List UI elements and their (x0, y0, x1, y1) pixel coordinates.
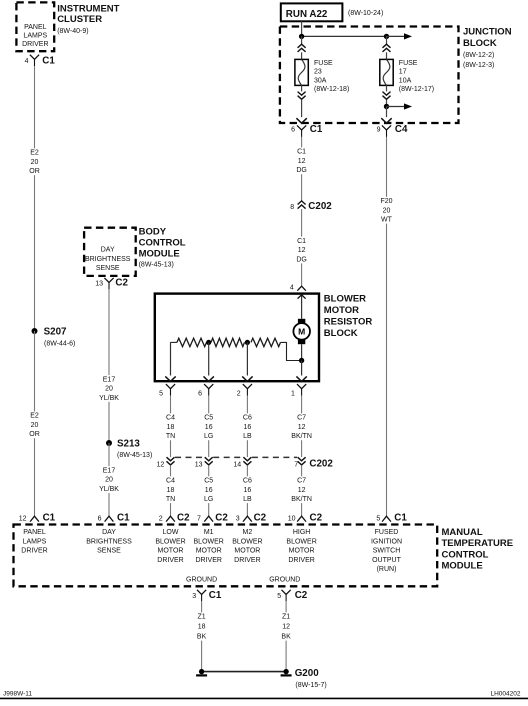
fuse 17 10A (380, 59, 393, 85)
svg-text:17: 17 (399, 69, 407, 76)
node resistor tap 1 (206, 340, 211, 345)
connector C2 module pin 3 (243, 512, 267, 523)
svg-text:C5: C5 (204, 478, 213, 485)
wire C5 16 LG lower (203, 465, 214, 516)
svg-text:C1: C1 (42, 56, 55, 67)
svg-text:TN: TN (166, 496, 175, 503)
pin 6 function label (86, 529, 132, 555)
svg-text:BLOWER: BLOWER (324, 293, 366, 304)
svg-text:16: 16 (205, 424, 213, 431)
pin 12 function label (21, 529, 47, 555)
connector pin 2 (243, 384, 252, 396)
connector C202 inline lower (298, 457, 334, 469)
svg-text:CONTROL: CONTROL (139, 238, 186, 249)
svg-text:RESISTOR: RESISTOR (324, 317, 373, 328)
svg-text:GROUND: GROUND (269, 577, 300, 584)
pin 12 C202 (157, 462, 165, 469)
wire label C1 12 DG (296, 147, 307, 174)
svg-text:MOTOR: MOTOR (196, 548, 222, 555)
pin 4 resistor block (290, 285, 294, 292)
svg-text:MOTOR: MOTOR (324, 305, 359, 316)
svg-text:C7: C7 (297, 478, 306, 485)
svg-text:12: 12 (157, 462, 165, 469)
node S207 (32, 327, 76, 348)
svg-text:C6: C6 (243, 478, 252, 485)
svg-text:5: 5 (376, 515, 380, 522)
svg-text:CONTROL: CONTROL (442, 549, 489, 560)
svg-text:RUN A22: RUN A22 (286, 9, 328, 20)
svg-text:C2: C2 (115, 278, 128, 289)
wire below fuse 23 (296, 85, 306, 123)
svg-text:BLOWER: BLOWER (286, 538, 316, 545)
wire label E2 20 OR (29, 148, 40, 175)
node RUN A22 (281, 3, 383, 21)
svg-text:CLUSTER: CLUSTER (57, 14, 102, 25)
svg-text:LB: LB (243, 433, 252, 440)
blower motor resistor block box (155, 294, 319, 382)
wire motor to node (301, 344, 303, 360)
svg-text:OR: OR (29, 168, 40, 175)
wire label E2 20 OR lower (29, 411, 40, 438)
svg-text:C2: C2 (310, 512, 323, 523)
node resistor tap 2 (245, 340, 250, 345)
svg-text:(8W-12-3): (8W-12-3) (463, 62, 494, 69)
connector C4 junction block (382, 124, 408, 137)
ground G200 (295, 668, 327, 689)
svg-text:DRIVER: DRIVER (22, 41, 48, 48)
wire to fuse 23 (298, 36, 306, 59)
svg-text:OR: OR (29, 431, 40, 438)
resistor R3 (251, 338, 281, 346)
svg-text:23: 23 (314, 69, 322, 76)
wire E2 20 OR lower (34, 331, 36, 516)
svg-text:20: 20 (31, 159, 39, 166)
panel lamps driver pin label (22, 24, 48, 48)
svg-text:BK/TN: BK/TN (291, 433, 312, 440)
svg-text:5: 5 (159, 391, 163, 398)
svg-text:LG: LG (204, 433, 213, 440)
svg-text:13: 13 (95, 280, 103, 287)
connector C1 module pin 12 (30, 512, 56, 523)
resistor R1 (177, 338, 207, 346)
svg-text:MANUAL: MANUAL (442, 527, 483, 538)
svg-text:C1: C1 (209, 590, 222, 601)
svg-text:12: 12 (298, 158, 306, 165)
connector C2 ground (282, 590, 308, 602)
svg-text:BLOWER: BLOWER (155, 538, 185, 545)
svg-text:FUSE: FUSE (399, 60, 418, 67)
svg-text:C2: C2 (295, 590, 308, 601)
svg-text:3: 3 (236, 515, 240, 522)
node fuse 17 branch (384, 104, 389, 109)
svg-text:Z1: Z1 (198, 614, 206, 621)
wire label E17 20 YL/BK (97, 375, 121, 402)
pin 2 resistor (237, 391, 241, 398)
ground bus wire (202, 671, 287, 673)
svg-text:BLOCK: BLOCK (324, 328, 358, 339)
wire tap M2 to pin 2 (242, 342, 252, 381)
pin 13 C202 (195, 462, 203, 469)
svg-text:MODULE: MODULE (139, 249, 180, 260)
wire E17 20 YL/BK upper (108, 289, 110, 443)
svg-text:(8W-10-24): (8W-10-24) (348, 10, 383, 17)
svg-text:BLOWER: BLOWER (194, 538, 224, 545)
wire below fuse 17 (383, 85, 391, 106)
svg-text:JUNCTION: JUNCTION (463, 27, 512, 38)
pin 6 (291, 127, 295, 134)
svg-text:C4: C4 (166, 415, 175, 422)
connector C1 module pin 6 (105, 512, 130, 523)
svg-text:20: 20 (105, 477, 113, 484)
svg-text:C1: C1 (394, 512, 407, 523)
connector C202 pin 13 chevron (205, 457, 213, 465)
svg-text:E17: E17 (103, 467, 116, 474)
svg-text:WT: WT (381, 217, 393, 224)
svg-text:GROUND: GROUND (186, 577, 217, 584)
svg-text:5: 5 (277, 593, 281, 600)
connector C202 inline upper (298, 201, 333, 212)
svg-text:MODULE: MODULE (442, 561, 483, 572)
pin 2 function label (155, 529, 185, 564)
svg-text:2: 2 (237, 391, 241, 398)
footer rule (0, 697, 528, 699)
svg-text:C2: C2 (177, 512, 190, 523)
svg-text:BK/TN: BK/TN (291, 496, 312, 503)
manual temperature control module box (14, 525, 438, 587)
svg-text:16: 16 (244, 424, 252, 431)
svg-text:14: 14 (233, 462, 241, 469)
svg-text:BLOWER: BLOWER (232, 538, 262, 545)
node S213 (106, 439, 152, 459)
svg-text:4: 4 (25, 58, 29, 65)
svg-text:C1: C1 (117, 512, 130, 523)
svg-text:(8W-45-13): (8W-45-13) (139, 261, 174, 268)
junction block box (280, 27, 459, 124)
svg-text:C4: C4 (166, 478, 175, 485)
svg-text:3: 3 (192, 593, 196, 600)
svg-text:6: 6 (291, 127, 295, 134)
svg-text:MOTOR: MOTOR (234, 548, 260, 555)
fuse 23 value label (314, 60, 349, 93)
connector C2 module pin 7 (204, 512, 228, 523)
svg-text:BODY: BODY (139, 227, 167, 238)
connector C1 ground (197, 590, 222, 602)
wire tap low to pin 5 (165, 342, 175, 381)
junction block label (463, 27, 512, 70)
svg-text:FUSE: FUSE (314, 60, 333, 67)
instrument cluster label (57, 3, 119, 35)
svg-text:BRIGHTNESS: BRIGHTNESS (85, 256, 131, 263)
pin 6 module (98, 515, 102, 522)
wire C7 12 BK/TN upper (290, 396, 314, 457)
svg-text:SWITCH: SWITCH (373, 548, 401, 555)
svg-text:6: 6 (198, 391, 202, 398)
svg-text:BLOCK: BLOCK (463, 38, 497, 49)
connector pin 5 (166, 384, 175, 396)
svg-text:LH004202: LH004202 (491, 690, 521, 697)
wire C4 18 TN lower (165, 465, 176, 516)
wire label E17 20 YL/BK lower (97, 466, 121, 493)
svg-text:(8W-45-13): (8W-45-13) (117, 452, 152, 459)
wire E2 20 OR upper (34, 66, 36, 331)
pin 2 module (159, 515, 163, 522)
wire C5 16 LG upper (203, 396, 214, 457)
blower motor resistor block label (324, 293, 373, 339)
svg-text:30A: 30A (314, 77, 327, 84)
svg-text:16: 16 (205, 487, 213, 494)
svg-text:12: 12 (298, 424, 306, 431)
svg-text:(8W-12-2): (8W-12-2) (463, 52, 494, 59)
connector C1 junction block (297, 124, 323, 137)
wire C4 18 TN upper (165, 396, 176, 457)
pin 1 resistor (291, 391, 295, 398)
svg-text:8: 8 (290, 204, 294, 211)
connector C1 instrument cluster (30, 55, 55, 67)
wire bus (302, 35, 387, 37)
pin 12 module (19, 515, 27, 522)
svg-text:DRIVER: DRIVER (234, 557, 260, 564)
pin 8 (290, 204, 294, 211)
svg-text:MOTOR: MOTOR (289, 548, 315, 555)
svg-text:S213: S213 (117, 439, 140, 450)
svg-text:C1: C1 (43, 512, 56, 523)
svg-text:F20: F20 (380, 198, 392, 205)
wire C1 12 DG upper (301, 137, 303, 201)
svg-text:20: 20 (31, 422, 39, 429)
svg-text:J998W-11: J998W-11 (3, 690, 32, 697)
svg-text:BRIGHTNESS: BRIGHTNESS (86, 538, 132, 545)
instrument cluster box (16, 2, 54, 51)
ground label right (269, 577, 300, 584)
svg-text:13: 13 (195, 462, 203, 469)
svg-text:C2: C2 (254, 512, 267, 523)
svg-text:18: 18 (198, 624, 206, 631)
svg-text:PANEL: PANEL (23, 529, 46, 536)
svg-text:(8W-44-6): (8W-44-6) (44, 341, 75, 348)
wire C1 12 DG lower (301, 209, 303, 286)
svg-text:Z1: Z1 (282, 614, 290, 621)
svg-text:YL/BK: YL/BK (99, 486, 119, 493)
svg-text:DAY: DAY (102, 529, 116, 536)
resistor R2 (211, 338, 245, 346)
manual temperature control module label (442, 527, 514, 572)
svg-text:LG: LG (204, 496, 213, 503)
connector C202 pin 12 chevron (167, 457, 175, 465)
svg-text:4: 4 (290, 285, 294, 292)
svg-text:(8W-40-9): (8W-40-9) (57, 28, 88, 35)
node bus junction left (299, 34, 304, 39)
svg-text:C202: C202 (308, 201, 332, 212)
svg-text:LAMPS: LAMPS (23, 538, 47, 545)
svg-text:DRIVER: DRIVER (288, 557, 314, 564)
pin 13 (95, 280, 103, 287)
wire Z1 12 BK (281, 601, 292, 671)
pin 6 resistor (198, 391, 202, 398)
svg-text:C202: C202 (309, 458, 333, 469)
connector pin 6 (204, 384, 213, 396)
motor M blower (293, 319, 310, 344)
svg-text:6: 6 (98, 515, 102, 522)
fuse 17 value label (399, 60, 434, 93)
connector C2 body control module (104, 278, 128, 290)
svg-text:E17: E17 (103, 376, 116, 383)
wire tap M1 to pin 6 (204, 342, 214, 381)
ground terminal left (196, 669, 207, 677)
fuse 23 30A (295, 59, 308, 85)
pin 10 module (288, 515, 296, 522)
pin 10 function label (286, 529, 316, 564)
svg-text:OUTPUT: OUTPUT (372, 557, 402, 564)
svg-text:IGNITION: IGNITION (371, 538, 402, 545)
connector C1 module pin 5 (382, 512, 407, 523)
svg-text:20: 20 (383, 207, 391, 214)
svg-text:DRIVER: DRIVER (21, 548, 47, 555)
svg-text:18: 18 (167, 424, 175, 431)
footer sheet number (3, 690, 32, 697)
svg-text:G200: G200 (295, 668, 320, 679)
svg-text:C1: C1 (297, 149, 306, 156)
resistor chain feed wire (170, 341, 177, 343)
svg-text:20: 20 (105, 386, 113, 393)
svg-text:12: 12 (282, 624, 290, 631)
svg-text:E2: E2 (30, 413, 39, 420)
pin 3 function label (232, 529, 262, 564)
pin 5 (159, 391, 163, 398)
ground label left (186, 577, 217, 584)
svg-text:DRIVER: DRIVER (195, 557, 221, 564)
svg-text:12: 12 (19, 515, 27, 522)
connector C2 module pin 10 (297, 512, 322, 523)
svg-text:PANEL: PANEL (24, 24, 47, 31)
ground terminal right (281, 669, 292, 677)
svg-text:DG: DG (296, 167, 307, 174)
svg-text:C1: C1 (297, 238, 306, 245)
wire C7 12 BK/TN lower (290, 465, 314, 516)
svg-text:FUSED: FUSED (375, 529, 399, 536)
pin 9 (377, 127, 381, 134)
connector C2 module pin 2 (166, 512, 190, 523)
svg-text:TEMPERATURE: TEMPERATURE (442, 538, 514, 549)
svg-text:DRIVER: DRIVER (157, 557, 183, 564)
svg-text:10A: 10A (399, 77, 412, 84)
pin 14 C202 (233, 462, 241, 469)
svg-text:(8W-15-7): (8W-15-7) (295, 682, 326, 689)
svg-text:DG: DG (296, 256, 307, 263)
svg-text:HIGH: HIGH (293, 529, 311, 536)
wire F20 20 WT (386, 137, 388, 516)
svg-text:(8W-12-18): (8W-12-18) (314, 86, 349, 93)
svg-text:TN: TN (166, 433, 175, 440)
pin 7 C202 (294, 462, 298, 469)
wire RUN A22 to bus (301, 21, 303, 36)
svg-text:INSTRUMENT: INSTRUMENT (57, 3, 119, 14)
svg-text:18: 18 (167, 487, 175, 494)
node bus junction right (384, 34, 389, 39)
wire pin4 to motor (298, 295, 306, 319)
wire E17 20 YL/BK lower (108, 443, 110, 516)
wire Z1 18 BK (196, 601, 207, 671)
svg-text:MOTOR: MOTOR (158, 548, 184, 555)
day brightness sense pin label (85, 247, 131, 273)
svg-text:LAMPS: LAMPS (23, 33, 47, 40)
footer drawing number (491, 690, 521, 697)
wire motor return to pin 1 (296, 361, 306, 382)
svg-text:SENSE: SENSE (97, 548, 121, 555)
connector pin 1 (297, 384, 306, 396)
pin 5 module (376, 515, 380, 522)
pin 5 function label (371, 529, 402, 573)
wire R3 to motor return (281, 342, 302, 360)
pin 7 module (197, 515, 201, 522)
svg-text:1: 1 (291, 391, 295, 398)
svg-text:C6: C6 (243, 415, 252, 422)
wire C6 16 LB upper (242, 396, 253, 457)
svg-text:16: 16 (244, 487, 252, 494)
node motor return (299, 358, 304, 363)
svg-text:C4: C4 (395, 124, 408, 135)
pin 4 (25, 58, 29, 65)
svg-text:E2: E2 (30, 150, 39, 157)
wire label C1 12 DG lower (296, 237, 307, 264)
wire C6 16 LB lower (242, 465, 253, 516)
svg-text:C5: C5 (204, 415, 213, 422)
svg-text:M: M (298, 327, 305, 337)
svg-text:LB: LB (243, 496, 252, 503)
svg-text:YL/BK: YL/BK (99, 395, 119, 402)
connector pin 4 chevron (297, 286, 306, 291)
svg-text:M1: M1 (204, 529, 214, 536)
wire fuse 17 to C4 (381, 107, 391, 124)
svg-text:DAY: DAY (101, 247, 115, 254)
svg-text:(8W-12-17): (8W-12-17) (399, 86, 434, 93)
svg-text:C7: C7 (297, 415, 306, 422)
body control module label (139, 227, 186, 269)
svg-text:7: 7 (294, 462, 298, 469)
pin 5 ground (277, 593, 281, 600)
wire label F20 20 WT (379, 197, 394, 224)
connector C202 pin 14 chevron (243, 457, 251, 465)
svg-text:12: 12 (298, 247, 306, 254)
svg-text:M2: M2 (243, 529, 253, 536)
svg-text:BK: BK (197, 634, 207, 641)
svg-text:SENSE: SENSE (96, 265, 120, 272)
svg-text:C2: C2 (215, 512, 228, 523)
svg-text:12: 12 (298, 487, 306, 494)
svg-text:S207: S207 (44, 327, 67, 338)
svg-text:9: 9 (377, 127, 381, 134)
connector C202 dashed line (175, 456, 297, 458)
branch continuation arrow (387, 103, 413, 109)
svg-text:BK: BK (281, 634, 291, 641)
bus continuation arrow (387, 33, 413, 39)
svg-text:(RUN): (RUN) (377, 566, 397, 573)
pin 3 ground (192, 593, 196, 600)
wire to fuse 17 (383, 36, 391, 59)
pin 7 function label (194, 529, 224, 564)
pin 3 module (236, 515, 240, 522)
svg-text:LOW: LOW (163, 529, 179, 536)
svg-text:7: 7 (197, 515, 201, 522)
svg-text:C1: C1 (310, 124, 323, 135)
svg-text:2: 2 (159, 515, 163, 522)
body control module box (84, 228, 136, 276)
svg-text:10: 10 (288, 515, 296, 522)
